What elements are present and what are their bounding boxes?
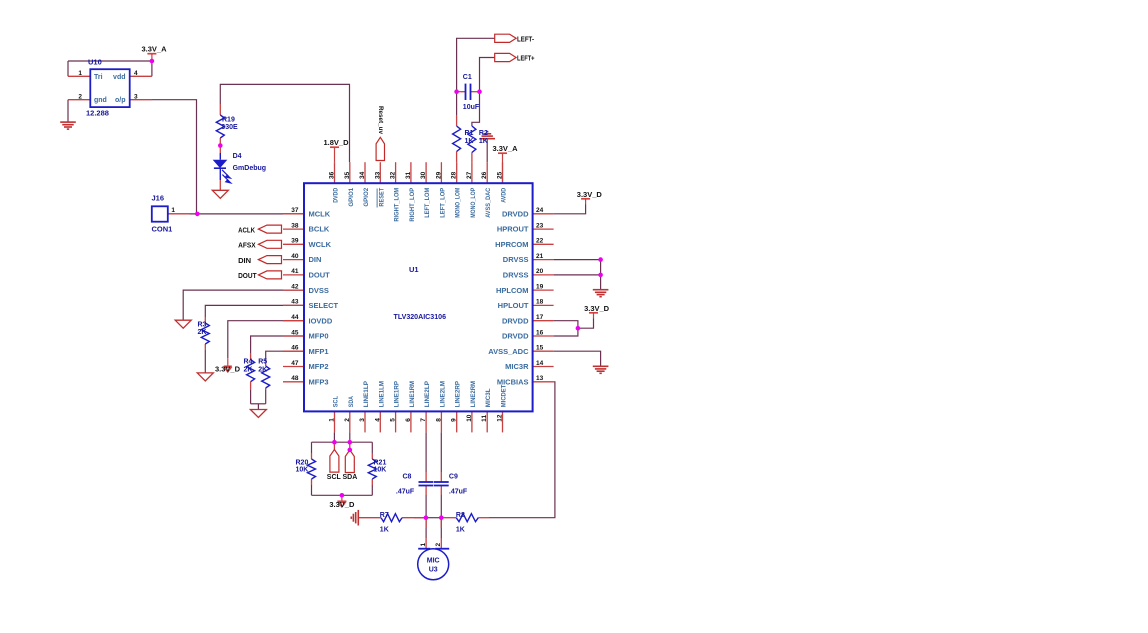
svg-text:7: 7: [420, 418, 427, 422]
svg-text:10K: 10K: [374, 467, 387, 474]
svg-text:2K: 2K: [258, 367, 267, 374]
svg-text:45: 45: [291, 329, 299, 336]
svg-text:Reset_uv: Reset_uv: [377, 106, 384, 134]
svg-text:SDA: SDA: [343, 474, 358, 481]
svg-text:.47uF: .47uF: [449, 489, 468, 496]
svg-text:10K: 10K: [296, 467, 309, 474]
svg-text:15: 15: [536, 345, 544, 352]
svg-text:R7: R7: [380, 512, 389, 519]
svg-text:IOVDD: IOVDD: [309, 316, 333, 325]
svg-text:DVSS: DVSS: [309, 286, 329, 295]
svg-text:1: 1: [329, 418, 336, 422]
svg-text:C9: C9: [449, 473, 458, 480]
svg-text:2: 2: [78, 94, 82, 101]
svg-text:C1: C1: [463, 74, 472, 81]
svg-text:LINE1LP: LINE1LP: [363, 381, 370, 408]
svg-text:DVDD: DVDD: [333, 188, 340, 203]
svg-text:U3: U3: [429, 566, 438, 573]
svg-text:33: 33: [374, 171, 381, 179]
svg-text:R8: R8: [456, 512, 465, 519]
svg-text:R20: R20: [296, 459, 309, 466]
svg-text:HPLCOM: HPLCOM: [496, 286, 529, 295]
svg-text:R3: R3: [198, 322, 207, 329]
svg-text:MONO_LOM: MONO_LOM: [455, 188, 462, 218]
svg-text:3.3V_D: 3.3V_D: [215, 365, 241, 374]
svg-text:2K: 2K: [244, 367, 253, 374]
svg-text:26: 26: [481, 171, 488, 179]
svg-text:330E: 330E: [221, 124, 238, 131]
svg-text:1: 1: [78, 70, 82, 77]
svg-text:SELECT: SELECT: [309, 301, 339, 310]
svg-text:2: 2: [435, 543, 442, 547]
svg-text:28: 28: [451, 171, 458, 179]
svg-text:41: 41: [291, 268, 299, 275]
svg-text:U1: U1: [409, 265, 419, 274]
svg-text:DRVDD: DRVDD: [502, 332, 529, 341]
svg-text:LINE1RP: LINE1RP: [394, 381, 401, 408]
svg-text:DRVSS: DRVSS: [503, 271, 529, 280]
svg-text:MFP1: MFP1: [309, 347, 329, 356]
svg-text:11: 11: [481, 415, 488, 422]
svg-text:GPIO1: GPIO1: [348, 188, 355, 207]
svg-text:12.288: 12.288: [86, 109, 109, 118]
svg-text:HPRCOM: HPRCOM: [495, 240, 528, 249]
svg-text:6: 6: [405, 418, 412, 422]
svg-text:MFP3: MFP3: [309, 377, 329, 386]
svg-text:14: 14: [536, 360, 544, 367]
svg-text:21: 21: [536, 253, 544, 260]
svg-text:GPIO2: GPIO2: [363, 188, 370, 207]
svg-text:10: 10: [466, 414, 473, 422]
svg-text:25: 25: [497, 171, 504, 179]
svg-text:LINE1RM: LINE1RM: [409, 381, 416, 407]
svg-text:R4: R4: [244, 359, 253, 366]
svg-text:27: 27: [466, 171, 473, 179]
svg-text:.47uF: .47uF: [396, 489, 415, 496]
svg-text:36: 36: [329, 171, 336, 179]
svg-text:gnd: gnd: [94, 97, 107, 104]
svg-text:4: 4: [374, 418, 381, 422]
svg-text:MFP0: MFP0: [309, 332, 329, 341]
svg-text:40: 40: [291, 253, 299, 260]
svg-text:39: 39: [291, 238, 299, 245]
svg-text:R21: R21: [374, 459, 387, 466]
svg-text:5: 5: [390, 418, 397, 422]
svg-text:3.3V_A: 3.3V_A: [141, 45, 167, 54]
svg-text:DIN: DIN: [238, 258, 251, 265]
svg-text:18: 18: [536, 299, 544, 306]
svg-text:1K: 1K: [456, 526, 465, 533]
svg-text:3.3V_D: 3.3V_D: [577, 190, 603, 199]
svg-text:CON1: CON1: [152, 224, 173, 233]
svg-text:LINE2RP: LINE2RP: [455, 381, 462, 408]
svg-text:GmDebug: GmDebug: [233, 165, 266, 172]
svg-text:34: 34: [359, 171, 366, 179]
svg-text:DOUT: DOUT: [309, 271, 331, 280]
svg-text:MIC: MIC: [427, 558, 440, 565]
svg-text:30: 30: [420, 171, 427, 179]
svg-text:LEFT+: LEFT+: [517, 56, 535, 63]
svg-text:D4: D4: [233, 153, 242, 160]
svg-text:43: 43: [291, 299, 299, 306]
svg-text:BCLK: BCLK: [309, 225, 330, 234]
svg-text:SCL: SCL: [327, 474, 342, 481]
svg-text:DRVDD: DRVDD: [502, 209, 529, 218]
svg-text:DRVDD: DRVDD: [502, 316, 529, 325]
svg-text:MIC3R: MIC3R: [505, 362, 529, 371]
svg-text:AFSX: AFSX: [238, 243, 256, 250]
svg-text:46: 46: [291, 345, 299, 352]
svg-text:9: 9: [451, 418, 458, 422]
svg-text:RIGHT_LOM: RIGHT_LOM: [394, 188, 401, 222]
svg-text:J16: J16: [152, 194, 165, 203]
svg-text:RIGHT_LOP: RIGHT_LOP: [409, 187, 416, 221]
svg-text:LINE2LM: LINE2LM: [439, 381, 446, 408]
svg-text:8: 8: [435, 418, 442, 422]
svg-text:AVSS_DAC: AVSS_DAC: [485, 188, 492, 218]
svg-text:19: 19: [536, 283, 544, 290]
svg-text:47: 47: [291, 360, 299, 367]
svg-text:Tri: Tri: [94, 74, 103, 81]
svg-text:29: 29: [435, 171, 442, 179]
svg-text:20: 20: [536, 268, 544, 275]
svg-text:4: 4: [134, 70, 138, 77]
svg-text:TLV320AIC3106: TLV320AIC3106: [394, 314, 447, 321]
svg-text:C8: C8: [403, 473, 412, 480]
svg-text:12: 12: [497, 414, 504, 422]
svg-text:48: 48: [291, 375, 299, 382]
svg-text:LINE1LM: LINE1LM: [378, 381, 385, 408]
svg-text:10uF: 10uF: [463, 104, 480, 111]
svg-text:1: 1: [171, 207, 175, 214]
svg-text:DOUT: DOUT: [238, 273, 257, 280]
svg-text:LINE2RM: LINE2RM: [470, 381, 477, 407]
svg-text:vdd: vdd: [113, 74, 125, 81]
svg-text:MFP2: MFP2: [309, 362, 329, 371]
svg-text:SCL: SCL: [333, 396, 340, 407]
svg-text:2K: 2K: [198, 329, 207, 336]
svg-text:AVSS_ADC: AVSS_ADC: [488, 347, 529, 356]
svg-text:AVDD: AVDD: [501, 188, 508, 203]
svg-text:MICDET: MICDET: [501, 384, 508, 407]
svg-text:3.3V_D: 3.3V_D: [329, 500, 355, 509]
svg-text:24: 24: [536, 207, 544, 214]
svg-text:HPROUT: HPROUT: [497, 225, 529, 234]
svg-text:DRVSS: DRVSS: [503, 255, 529, 264]
svg-text:1K: 1K: [380, 526, 389, 533]
svg-text:MCLK: MCLK: [309, 209, 331, 218]
svg-text:35: 35: [344, 171, 351, 179]
svg-text:RESET: RESET: [378, 187, 385, 206]
svg-text:U10: U10: [88, 58, 102, 67]
svg-text:R5: R5: [258, 359, 267, 366]
svg-text:3: 3: [134, 94, 138, 101]
svg-text:2: 2: [344, 418, 351, 422]
svg-text:32: 32: [390, 171, 397, 179]
svg-text:22: 22: [536, 238, 544, 245]
svg-text:LINE2LP: LINE2LP: [424, 381, 431, 408]
svg-text:13: 13: [536, 375, 544, 382]
svg-text:MIC3L: MIC3L: [485, 388, 492, 407]
svg-text:1.8V_D: 1.8V_D: [323, 138, 349, 147]
svg-text:38: 38: [291, 222, 299, 229]
svg-text:HPLOUT: HPLOUT: [498, 301, 529, 310]
svg-text:LEFT-: LEFT-: [517, 36, 535, 43]
svg-text:WCLK: WCLK: [309, 240, 332, 249]
svg-text:DIN: DIN: [309, 255, 322, 264]
svg-text:MONO_LOP: MONO_LOP: [470, 187, 477, 217]
svg-text:R19: R19: [222, 117, 235, 124]
svg-text:23: 23: [536, 222, 544, 229]
svg-text:ACLK: ACLK: [238, 227, 255, 234]
svg-text:44: 44: [291, 314, 299, 321]
svg-text:3.3V_D: 3.3V_D: [584, 304, 610, 313]
svg-text:37: 37: [291, 207, 299, 214]
svg-text:LEFT_LOM: LEFT_LOM: [424, 188, 431, 218]
svg-text:17: 17: [536, 314, 544, 321]
svg-text:31: 31: [405, 171, 412, 179]
svg-text:16: 16: [536, 329, 544, 336]
svg-text:1: 1: [420, 543, 427, 547]
svg-text:3: 3: [359, 418, 366, 422]
svg-text:42: 42: [291, 283, 299, 290]
svg-text:1K: 1K: [479, 138, 488, 145]
svg-text:SDA: SDA: [348, 396, 355, 407]
svg-text:LEFT_LOP: LEFT_LOP: [439, 187, 446, 217]
svg-text:o/p: o/p: [115, 97, 126, 104]
svg-text:3.3V_A: 3.3V_A: [492, 144, 518, 153]
svg-text:R2: R2: [479, 130, 488, 137]
